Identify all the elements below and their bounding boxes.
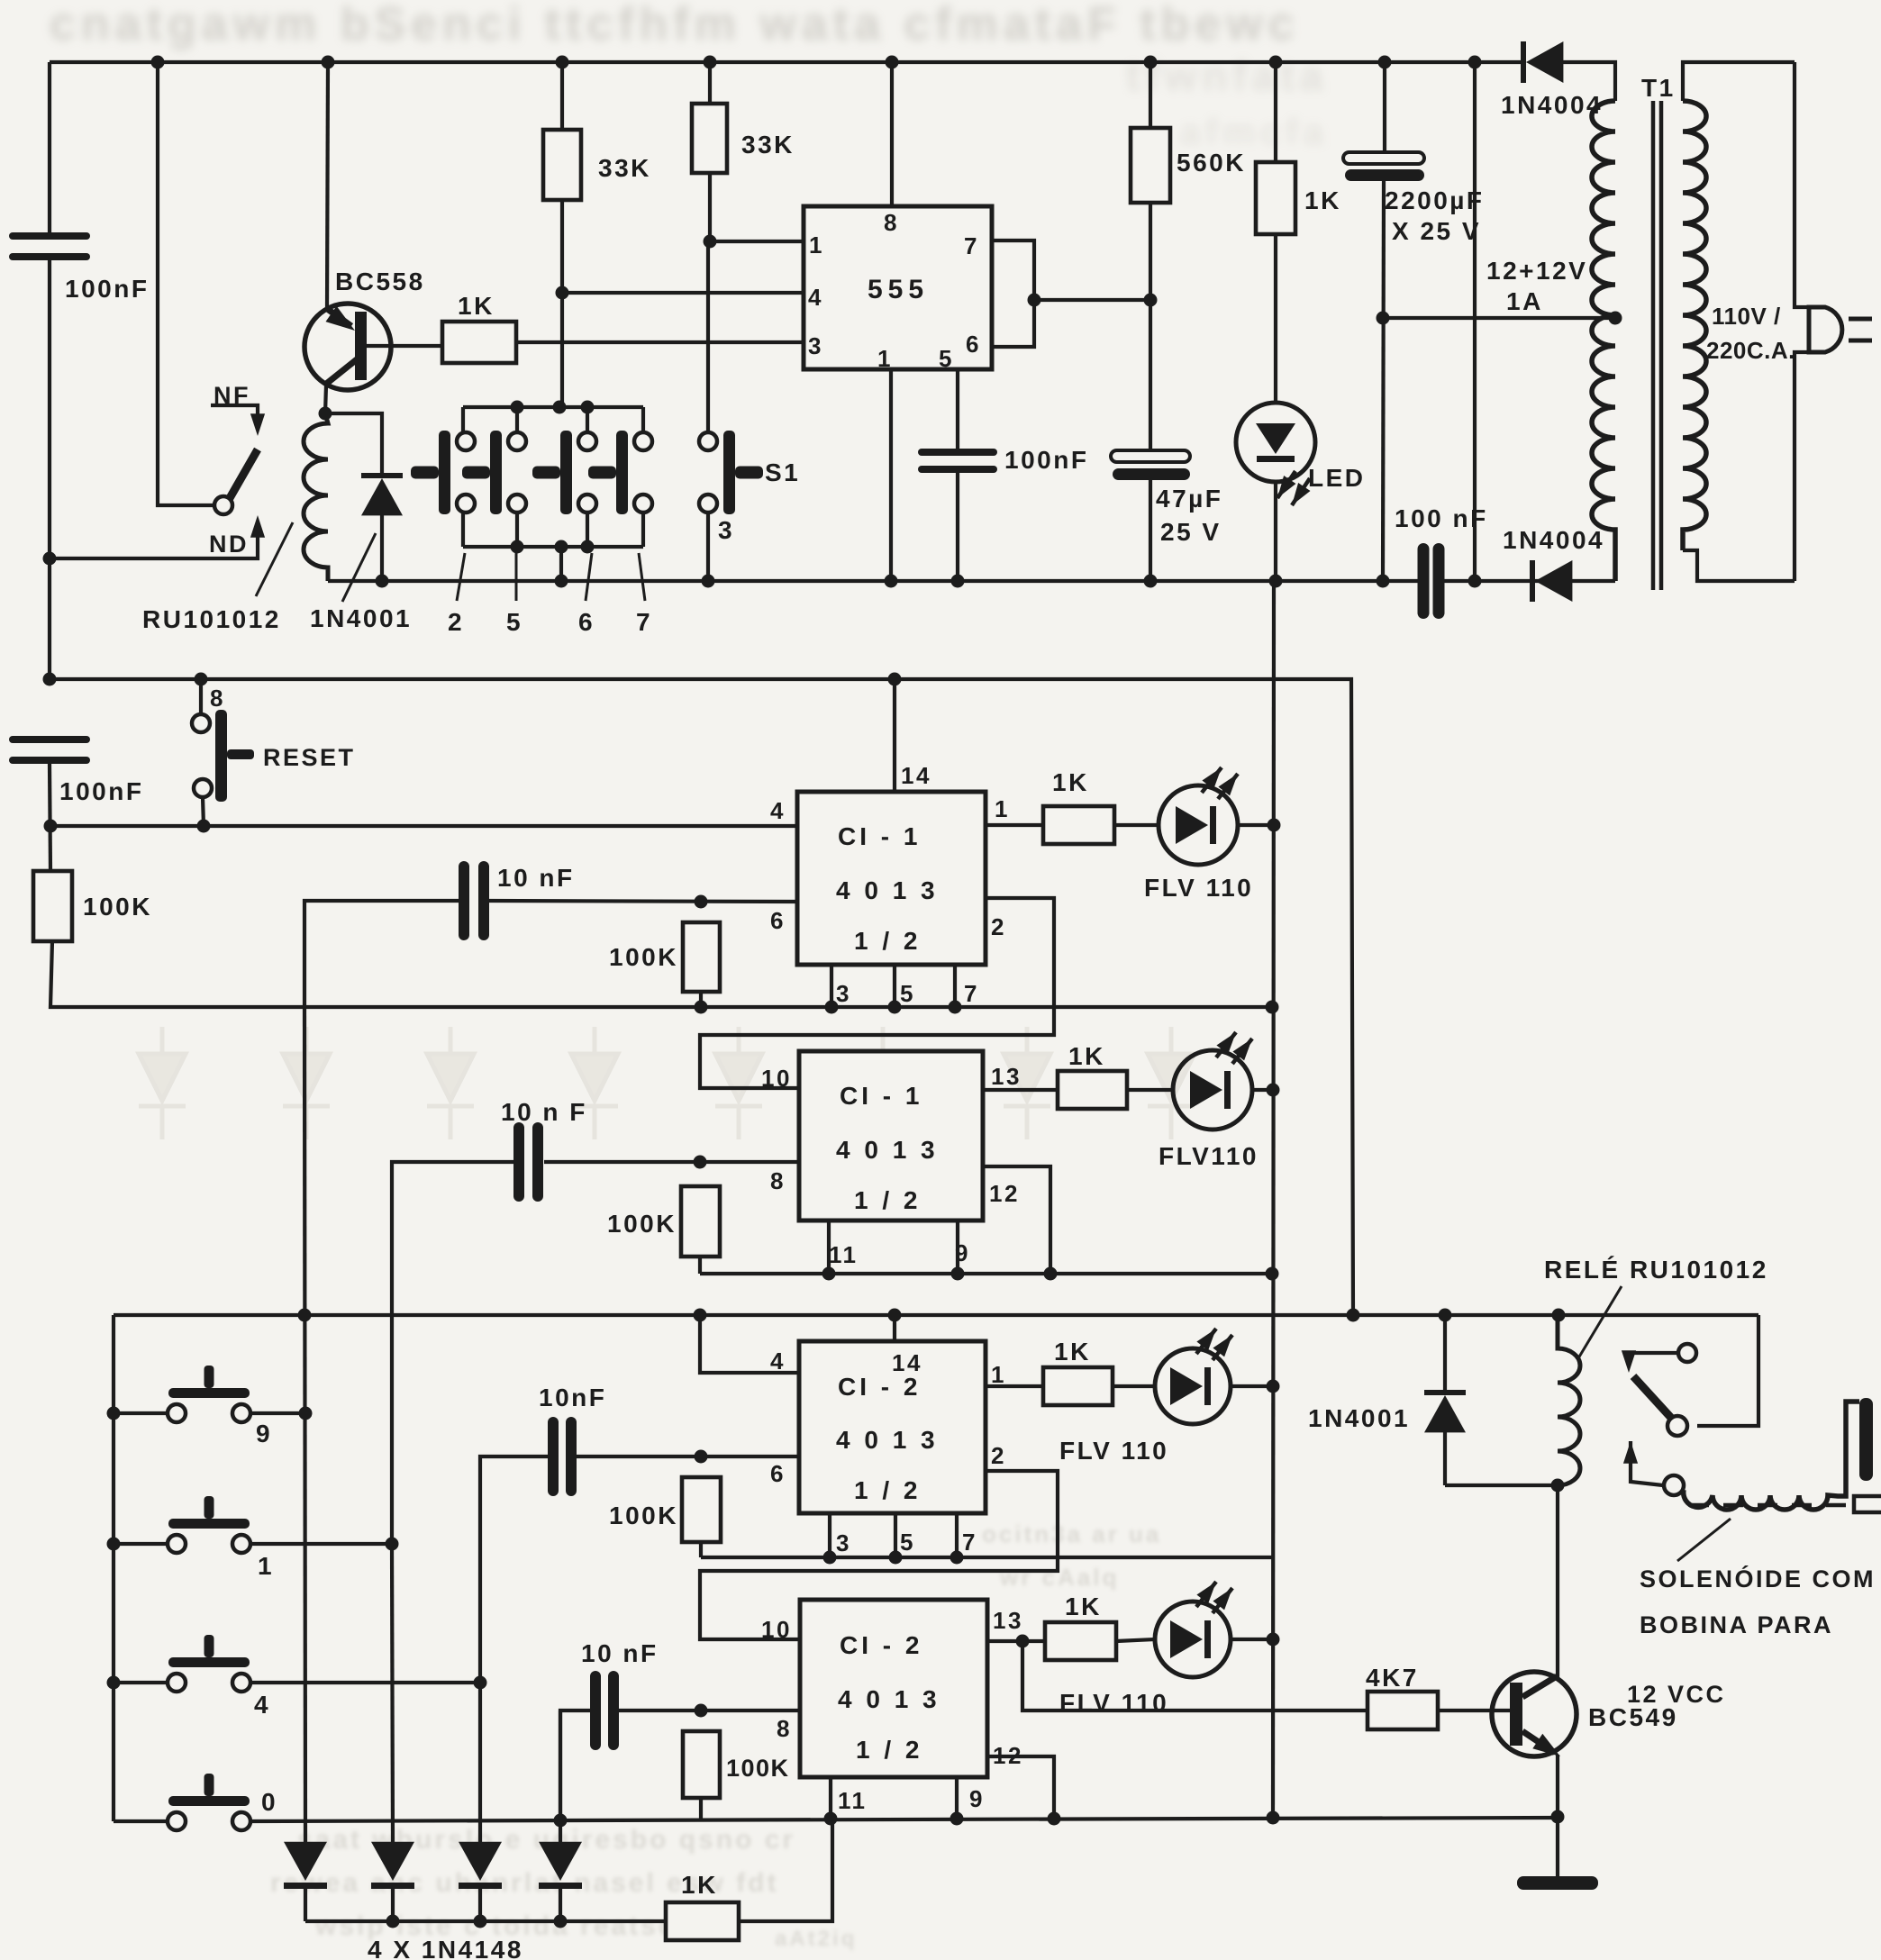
svg-text:33K: 33K [741, 131, 795, 159]
svg-text:6: 6 [770, 907, 786, 934]
node top rail / BC558 emitter branch [322, 56, 335, 69]
node D2 / bus [386, 1915, 400, 1928]
wire 33K-1 top [560, 62, 564, 130]
capacitor C 100nF (555 pin5) [918, 449, 997, 473]
node LED2 / cathode bus [1267, 1084, 1280, 1097]
leader relay2 [1578, 1286, 1622, 1358]
svg-text:10 nF: 10 nF [497, 864, 575, 892]
wire 100K-left bottom elbow [50, 941, 1272, 1007]
node keypad1 top bus / key6 [581, 401, 595, 414]
svg-text:8: 8 [770, 1167, 786, 1194]
wire ND contact to left column [50, 531, 258, 558]
leader key6 [586, 553, 592, 601]
svg-text:1K: 1K [1054, 1338, 1091, 1366]
node gnd rail / pin12 drop [1048, 1812, 1061, 1826]
wire keypad1 bus to gnd rail [559, 547, 563, 581]
resistor 33K (R2) [692, 104, 727, 173]
svg-text:CI - 2: CI - 2 [840, 1631, 922, 1659]
wire relay common from rail [158, 62, 214, 505]
capacitor C 10nF (CI-2b clock) [590, 1671, 619, 1750]
node gnd rail / keypad1 [555, 575, 568, 588]
node keypad1 top bus / pin4 line [553, 401, 567, 414]
node 1N4001 anode / gnd rail [376, 575, 389, 588]
diode D4 1N4148 [539, 1842, 582, 1889]
svg-text:100nF: 100nF [59, 777, 143, 805]
node 33K-2 / 555 pin1 [704, 235, 717, 249]
wire 560K top [1149, 62, 1152, 128]
switch key 9 [168, 1366, 250, 1422]
wire 10nF3 to pin6 [576, 1455, 799, 1458]
svg-text:1: 1 [877, 345, 893, 372]
wire CI-2b pin9 stub [955, 1777, 959, 1819]
wire D 1N4001 top [325, 413, 382, 474]
capacitor C 2200uF electrolytic [1343, 152, 1424, 181]
svg-text:4: 4 [808, 284, 823, 311]
wire clk line key9 down [304, 1007, 305, 1842]
svg-text:1: 1 [995, 795, 1010, 822]
svg-text:14: 14 [892, 1349, 922, 1376]
wire T1 primary top to plug box [1683, 62, 1795, 101]
relay armature (top relay) [230, 449, 258, 498]
resistor 1K (base BC558) [442, 322, 516, 363]
wire 1N4001-2 bottom [1443, 1432, 1447, 1485]
node ND wire / left column [43, 552, 57, 566]
node gnd rail / CI-2b pin9 [950, 1812, 964, 1826]
wire CI-1b pin11 stub [827, 1220, 831, 1274]
svg-text:1 / 2: 1 / 2 [854, 1476, 921, 1504]
wire pin13 node down to 4K7 [1022, 1641, 1368, 1710]
wire CI-2a pin7 stub [955, 1513, 959, 1557]
svg-text:S1: S1 [765, 458, 800, 486]
svg-text:13: 13 [993, 1607, 1023, 1634]
wire 1K to LED [1274, 234, 1277, 404]
contact NF stub [211, 405, 258, 420]
node pin7 / rail [949, 1001, 962, 1014]
wire 47uF to gnd [1149, 480, 1152, 581]
node top rail / 33K-1 branch [556, 56, 569, 69]
node CI-2a pin3 / rail [823, 1551, 837, 1565]
latch bolt [1854, 1496, 1881, 1512]
svg-text:6: 6 [966, 331, 981, 358]
switch key 6 [532, 431, 596, 514]
svg-text:100K: 100K [83, 893, 152, 921]
diode D 1N4004 (lower) [1530, 560, 1572, 602]
node pin9 / rail [951, 1267, 965, 1281]
svg-text:100nF: 100nF [1004, 446, 1088, 474]
wire 555 pin8 to rail [890, 62, 894, 206]
wire LED2 to cathode bus [1251, 1088, 1273, 1092]
wire 555 pin1 to node [710, 240, 804, 243]
node key1 / clk line [386, 1538, 399, 1551]
svg-text:1N4004: 1N4004 [1503, 526, 1604, 554]
wire key9 row [114, 1411, 305, 1415]
wire LED to gnd rail [1274, 482, 1277, 581]
relay contact pivot (bottom relay) [1667, 1416, 1687, 1436]
svg-text:LED: LED [1308, 464, 1366, 492]
plug 110V/220V mains [1809, 307, 1872, 352]
svg-text:1K: 1K [1052, 768, 1089, 796]
svg-text:14: 14 [901, 762, 931, 789]
wire 1N4001-2 top stub [1443, 1315, 1447, 1391]
resistor 1K (FLV110 no.1) [1043, 806, 1114, 844]
ground symbol [1517, 1876, 1598, 1890]
svg-text:3: 3 [718, 516, 734, 544]
svg-text:9: 9 [256, 1420, 272, 1447]
wire key4 clk elbow [480, 1456, 549, 1683]
node D3 / bus [474, 1915, 487, 1928]
wire rectifier output column [1473, 62, 1477, 581]
svg-text:4 0 1 3: 4 0 1 3 [838, 1685, 940, 1713]
wire clk line key1 elbow [392, 1162, 513, 1544]
svg-text:2: 2 [448, 608, 464, 636]
svg-text:1N4001: 1N4001 [310, 604, 412, 632]
capacitor C 100nF input (top left) [9, 232, 90, 260]
wire CI-1b pin12 elbow [983, 1166, 1050, 1274]
wire LED1 to cathode bus [1238, 823, 1274, 827]
svg-text:2: 2 [991, 913, 1006, 940]
svg-text:4: 4 [770, 1347, 786, 1375]
transformer T1 secondary winding [1592, 101, 1615, 581]
transistor Q1 BC558 (PNP) [304, 304, 391, 390]
node rail3 / relay2 coil [1552, 1309, 1566, 1322]
wire 555 pin7 [992, 240, 1034, 347]
wire 33K-1 bottom [560, 200, 564, 407]
node pin5 / rail [888, 1001, 902, 1014]
svg-text:10nF: 10nF [539, 1384, 606, 1411]
wire diode cathode bus [305, 1919, 666, 1923]
wire 33K-2 top [708, 62, 712, 104]
svg-text:4 0 1 3: 4 0 1 3 [836, 1136, 939, 1164]
svg-text:ocitn3a ar ua: ocitn3a ar ua [982, 1520, 1161, 1547]
node gnd rail / S1 [702, 575, 715, 588]
diode D1 1N4148 [284, 1842, 327, 1889]
node top rail / 33K-2 branch [704, 56, 717, 69]
wire BC549 emitter down [1556, 1755, 1559, 1817]
svg-text:100K: 100K [607, 1210, 677, 1238]
svg-text:10: 10 [761, 1616, 792, 1643]
svg-text:12: 12 [989, 1180, 1020, 1207]
svg-text:3: 3 [836, 1529, 851, 1556]
transformer T1 core [1653, 101, 1661, 590]
node rail3 / 1N4001-2 [1439, 1309, 1452, 1322]
stub key5 top [515, 407, 519, 432]
node keypad1 bottom bus / gnd drop [555, 540, 568, 554]
wire key4 row [114, 1681, 480, 1684]
wire clk line key9 elbow [304, 901, 459, 1007]
LED FLV110 no.1 [1159, 767, 1238, 865]
node top rail / 1K LED branch [1269, 56, 1283, 69]
node coil bottom / BC549 collector [1551, 1479, 1565, 1493]
svg-text:7: 7 [962, 1529, 977, 1556]
wire CI-2a pin2 to pin10 link [700, 1471, 1058, 1639]
wire pins 11-9 rail [700, 1272, 1272, 1275]
capacitor C 10nF (CI-1b clock) [513, 1122, 543, 1202]
node gnd rail / 555 pin5 cap [951, 575, 965, 588]
wire 10nF1 to pin6 [489, 901, 797, 902]
node center tap junction [1377, 312, 1390, 325]
node rail3 / key9 clk line [298, 1309, 312, 1322]
wire 10nF2 to pin8 [544, 1160, 799, 1164]
svg-text:3: 3 [808, 332, 823, 359]
wire center tap [1383, 316, 1615, 320]
node 555 pin7/6 bracket tap [1028, 294, 1041, 307]
svg-text:4: 4 [254, 1691, 270, 1719]
svg-text:220C.A.: 220C.A. [1706, 337, 1795, 364]
wire emitter to ground [1556, 1817, 1559, 1876]
node gnd rail / LED [1269, 575, 1283, 588]
node keypad1 bottom bus / key6 [581, 540, 595, 554]
svg-text:4 0 1 3: 4 0 1 3 [836, 1426, 939, 1454]
node top rail / rectifier output branch [1468, 56, 1482, 69]
node key1 row / left rail [107, 1538, 121, 1551]
capacitor C 10nF (CI-2a clock) [548, 1417, 577, 1496]
wire CI-1a pin3 stub [830, 965, 833, 1007]
wire 555 pin1 gnd stub [889, 369, 893, 581]
wire 4K7 to BC549 base [1438, 1709, 1512, 1712]
node pin6 / 100K CI-2a [695, 1450, 708, 1464]
svg-text:1N4004: 1N4004 [1501, 91, 1603, 119]
node 560K / 47uF junction [1144, 294, 1158, 307]
svg-text:560K: 560K [1177, 149, 1246, 177]
wire relay2 common [1697, 1315, 1758, 1426]
capacitor C 100nF (reset, left) [9, 736, 90, 764]
wire clk line key4 down [478, 1683, 482, 1842]
wire plug box right side [1795, 62, 1809, 581]
resistor 1K (FLV110 no.3) [1043, 1367, 1113, 1405]
wire 100K CI-2b bottom [699, 1798, 703, 1819]
svg-text:RU101012: RU101012 [142, 605, 281, 633]
wire section2 top rail (reset bus feed) [50, 679, 1353, 1315]
switch key 2 [411, 431, 475, 514]
wire 1K to LED2 [1127, 1088, 1174, 1092]
arrow relay2 contact [1622, 1350, 1636, 1373]
svg-text:33K: 33K [598, 154, 651, 182]
svg-text:11: 11 [838, 1787, 868, 1814]
arrow NF contact [250, 413, 265, 436]
svg-text:4 X 1N4148: 4 X 1N4148 [368, 1936, 523, 1960]
capacitor C 100nF (across output) [1418, 543, 1445, 619]
node pin8 / 100K CI-2b [695, 1704, 708, 1718]
diode D2 1N4148 [371, 1842, 414, 1889]
resistor 560K [1131, 128, 1170, 203]
node gnd rail / 47uF [1144, 575, 1158, 588]
svg-text:1: 1 [809, 231, 824, 259]
op-amp/IC U1 555 timer box [804, 206, 992, 369]
wire 33K-2 bottom [708, 173, 712, 241]
wire section1 ground rail right part [1443, 579, 1615, 583]
node rail2 / left column [43, 673, 57, 686]
wire 1K to 555 pin3 [516, 340, 804, 344]
resistor 100K (left) [33, 871, 72, 941]
node gnd rail / cathode bus [1267, 1811, 1280, 1825]
svg-text:25 V: 25 V [1160, 518, 1222, 546]
wire 555 pin5 stub [956, 369, 959, 449]
node 100K-2 / rail [695, 1001, 708, 1014]
svg-text:4: 4 [770, 797, 786, 824]
capacitor C 47uF electrolytic [1111, 450, 1190, 480]
wire D 1N4001 bottom [380, 515, 384, 581]
svg-text:9: 9 [969, 1785, 985, 1812]
leader key7 [639, 553, 645, 601]
svg-text:8: 8 [884, 209, 899, 236]
wire key0 row / gnd rail [114, 1818, 1558, 1821]
svg-text:1: 1 [991, 1361, 1006, 1388]
node rail2 / CI-1 pin14 [888, 673, 902, 686]
svg-text:FLV110: FLV110 [1159, 1142, 1259, 1170]
stub key6 top [586, 407, 589, 432]
solenoid terminal circle [1664, 1475, 1684, 1495]
wire BC558 emitter to rail [327, 62, 328, 309]
leader key2 [457, 553, 465, 601]
svg-text:RELÉ RU101012: RELÉ RU101012 [1544, 1256, 1768, 1284]
node BC558 collector / relay coil / diode [319, 407, 332, 421]
resistor 100K (CI-2a) [682, 1477, 721, 1542]
svg-text:5: 5 [506, 608, 522, 636]
wire CI-1a pin7 stub [953, 965, 957, 1007]
IC CI-2 4013 (first half) box [799, 1341, 986, 1513]
svg-text:4 0 1 3: 4 0 1 3 [836, 876, 939, 904]
node key9 row / left rail [107, 1407, 121, 1420]
capacitor C 10nF (CI-1a clock) [459, 861, 489, 940]
wire pin1 to 1K [986, 823, 1043, 827]
svg-text:1 / 2: 1 / 2 [854, 927, 921, 955]
wire key1 row [114, 1542, 392, 1546]
wire 1K bus to pin11 rail [739, 1819, 832, 1921]
svg-text:SOLENÓIDE COM: SOLENÓIDE COM [1640, 1565, 1876, 1592]
svg-text:100nF: 100nF [65, 275, 149, 303]
svg-text:1 / 2: 1 / 2 [856, 1736, 922, 1764]
svg-text:FLV 110: FLV 110 [1059, 1689, 1168, 1717]
svg-text:47µF: 47µF [1156, 485, 1222, 513]
svg-text:10 n F: 10 n F [501, 1098, 587, 1126]
node clk1 rail end on cathode bus [1266, 1001, 1279, 1014]
svg-text:1A: 1A [1506, 287, 1543, 315]
node pin3 / rail [825, 1001, 839, 1014]
svg-text:100K: 100K [726, 1755, 790, 1782]
svg-text:13: 13 [991, 1063, 1022, 1090]
IC CI-1 4013 (first half) box [797, 792, 986, 965]
svg-text:2: 2 [991, 1442, 1006, 1469]
svg-text:1K: 1K [1304, 186, 1341, 214]
node left column / reset rail [44, 820, 58, 833]
wire CI-1a pin14 stub [893, 679, 896, 792]
solenoid plunger bar [1859, 1398, 1873, 1481]
wire section1 ground rail [328, 579, 1420, 583]
node CI-2a pin7 / rail [950, 1551, 964, 1565]
node LED4 / cathode bus [1267, 1633, 1280, 1647]
svg-text:7: 7 [636, 608, 652, 636]
wire CI-2b pin13 to 1K [987, 1639, 1045, 1643]
svg-text:10 nF: 10 nF [581, 1639, 659, 1667]
node top rail / relay common branch [151, 56, 165, 69]
wire CI-2b pin11 stub [829, 1777, 832, 1819]
arrow ND contact [250, 515, 265, 538]
LED FLV110 no.4 [1155, 1582, 1232, 1677]
node pin8 / 100K-3 [694, 1156, 707, 1169]
node CI-2a pin5 / rail [889, 1551, 903, 1565]
wire keypad/relay rail [114, 1313, 1758, 1317]
svg-text:555: 555 [868, 275, 929, 304]
diode D 1N4004 (upper) [1521, 41, 1563, 83]
svg-text:CI - 1: CI - 1 [838, 822, 921, 850]
wire LED4 to cathode bus [1231, 1638, 1273, 1641]
node rail3 / CI-2a pin4 [694, 1309, 707, 1322]
relay coil RU101012 (bottom) [1558, 1315, 1580, 1485]
svg-text:FLV 110: FLV 110 [1059, 1437, 1168, 1465]
stub key5 bottom [515, 513, 519, 547]
wire pin13 to 1K [983, 1088, 1058, 1092]
node pin12 / rail [1044, 1267, 1058, 1281]
arrow solenoid plunger direction [1623, 1441, 1638, 1464]
wire left column upper [48, 62, 51, 235]
wire 1K to LED4 [1116, 1639, 1155, 1641]
wire CI-2b pin12 elbow [987, 1756, 1054, 1819]
svg-text:11: 11 [829, 1241, 859, 1268]
switch key 1 [168, 1496, 250, 1553]
wire coil bottom link [1445, 1484, 1558, 1487]
wire 560K bottom [1149, 203, 1152, 450]
wire CI-2a pin4 elbow [700, 1315, 799, 1373]
wire pin2 to pin10 link [700, 898, 1054, 1088]
node pin13 / BC549 branch [1016, 1635, 1030, 1648]
node rail3 / CI-2a pin14 [888, 1309, 902, 1322]
svg-text:12+12V: 12+12V [1486, 257, 1587, 285]
node center tap on winding [1609, 312, 1622, 325]
wire left column below cap [48, 260, 51, 681]
wire top +12V rail [50, 60, 1522, 64]
wire 100K-3 bottom [698, 1257, 702, 1274]
svg-text:5: 5 [900, 1529, 915, 1556]
wire pin5 cap to gnd [956, 473, 959, 581]
svg-text:6: 6 [578, 608, 595, 636]
diode D 1N4001 (relay clamp, top) [361, 473, 403, 515]
wire cathode bus (vertical) [1273, 581, 1274, 1817]
resistor 1K (FLV110 no.2) [1058, 1071, 1127, 1109]
wire 2200uF to center tap [1383, 181, 1384, 581]
svg-text:2200µF: 2200µF [1385, 186, 1485, 214]
svg-text:afmcfa: afmcfa [1180, 113, 1329, 152]
resistor 33K (R1) [543, 130, 581, 200]
svg-text:10: 10 [761, 1065, 792, 1092]
wire RESET bottom stub [203, 797, 204, 826]
wire 1K LED top [1274, 62, 1277, 162]
wire clk line key0 segment [559, 1710, 562, 1842]
leader 1N4001 top [342, 533, 376, 602]
node key4 / clk line [474, 1676, 487, 1690]
svg-text:BOBINA PARA: BOBINA PARA [1640, 1611, 1833, 1638]
switch key 4 [168, 1635, 250, 1692]
svg-text:7: 7 [964, 232, 979, 259]
wire S1 bottom to gnd [706, 513, 710, 581]
node key9 / clk line [299, 1407, 313, 1420]
wire CI-1b pin9 stub [956, 1220, 959, 1274]
resistor 100K (CI-2b) [683, 1731, 720, 1798]
node x1502 bottom on relay rail [1347, 1309, 1360, 1322]
wire 100K-2 bottom [699, 992, 703, 1007]
resistor 1K (FLV110 no.4) [1045, 1622, 1116, 1660]
svg-text:100K: 100K [609, 1502, 678, 1529]
svg-text:cnatgawm bSenci ttcfhfm wata c: cnatgawm bSenci ttcfhfm wata cfmataF tbe… [50, 0, 1300, 50]
svg-text:3: 3 [836, 980, 851, 1007]
node D4 / bus [554, 1915, 568, 1928]
node LED3 / cathode bus [1267, 1380, 1280, 1393]
wire 10nF4 to pin8 [619, 1709, 800, 1712]
wire BC558 collector down [325, 386, 326, 413]
transistor Q2 BC549 (NPN) [1492, 1672, 1577, 1756]
LED FLV110 no.2 [1173, 1032, 1252, 1130]
wire coil bottom to gnd rail [326, 579, 330, 583]
switch S1 [699, 431, 763, 514]
